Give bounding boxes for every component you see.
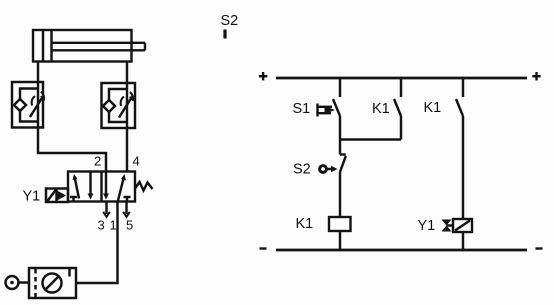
contact S2 (roller NC): [320, 155, 346, 173]
contact S1 (pushbutton NO): [318, 99, 341, 117]
valve right box flow arrows: [103, 172, 131, 202]
flow control valve V1 (left, one-way): [12, 82, 44, 128]
valve 5/2 body: [68, 172, 135, 202]
wire coil K1 to bottom rail: [339, 231, 341, 250]
wire latch junction: [340, 138, 401, 140]
branch 2 wire from top rail: [400, 78, 402, 97]
wire port 1 to air service unit: [76, 202, 118, 284]
valve left box flow arrows: [70, 173, 94, 202]
label + right: [532, 72, 540, 80]
wire cylinder right port to flow valve V2: [126, 62, 128, 84]
top rail +: [276, 77, 527, 80]
wire K1 contact to Y1: [462, 116, 464, 219]
exhaust arrow port 3: [103, 202, 110, 217]
S2 position marker: [223, 30, 226, 39]
wire S1 to junction: [339, 116, 341, 155]
contact K1 (NO, latching): [394, 99, 401, 116]
wire cylinder left port to flow valve V1: [37, 62, 39, 83]
exhaust arrow port 5: [123, 202, 130, 217]
svg-text:S2: S2: [293, 162, 311, 178]
label + left: [259, 72, 267, 80]
wire S2 to coil K1: [339, 172, 341, 217]
spring return: [135, 182, 153, 191]
svg-text:S2: S2: [221, 13, 239, 29]
solenoid valve Y1 symbol: [442, 219, 473, 232]
compressed air source: [6, 276, 30, 289]
flow control valve V2 (right, one-way): [102, 83, 136, 128]
svg-text:2: 2: [94, 154, 101, 169]
branch 3 wire from top rail: [462, 78, 464, 97]
svg-text:Y1: Y1: [23, 189, 41, 205]
svg-text:4: 4: [133, 154, 140, 169]
cylinder (double-acting): [33, 30, 145, 62]
svg-text:K1: K1: [372, 101, 390, 117]
branch 1 wire from top rail: [339, 78, 341, 97]
svg-text:1: 1: [110, 218, 117, 233]
wire K1 contact down: [400, 116, 402, 140]
relay coil K1: [329, 217, 351, 231]
svg-text:3: 3: [98, 218, 105, 233]
svg-text:S1: S1: [293, 101, 311, 117]
wire V2 to valve port 4: [126, 128, 128, 172]
svg-text:Y1: Y1: [418, 218, 436, 234]
air service unit: [29, 268, 76, 298]
bottom rail -: [276, 249, 527, 252]
svg-text:K1: K1: [424, 100, 442, 116]
wire V1 to valve port 2: [38, 128, 106, 172]
svg-text:5: 5: [126, 218, 133, 233]
wire Y1 to bottom rail: [462, 232, 464, 250]
solenoid Y1 on valve: [46, 189, 68, 203]
label - right: [536, 247, 543, 249]
label - left: [260, 247, 267, 249]
svg-text:K1: K1: [296, 216, 314, 232]
contact K1 (NO, right): [456, 99, 463, 116]
